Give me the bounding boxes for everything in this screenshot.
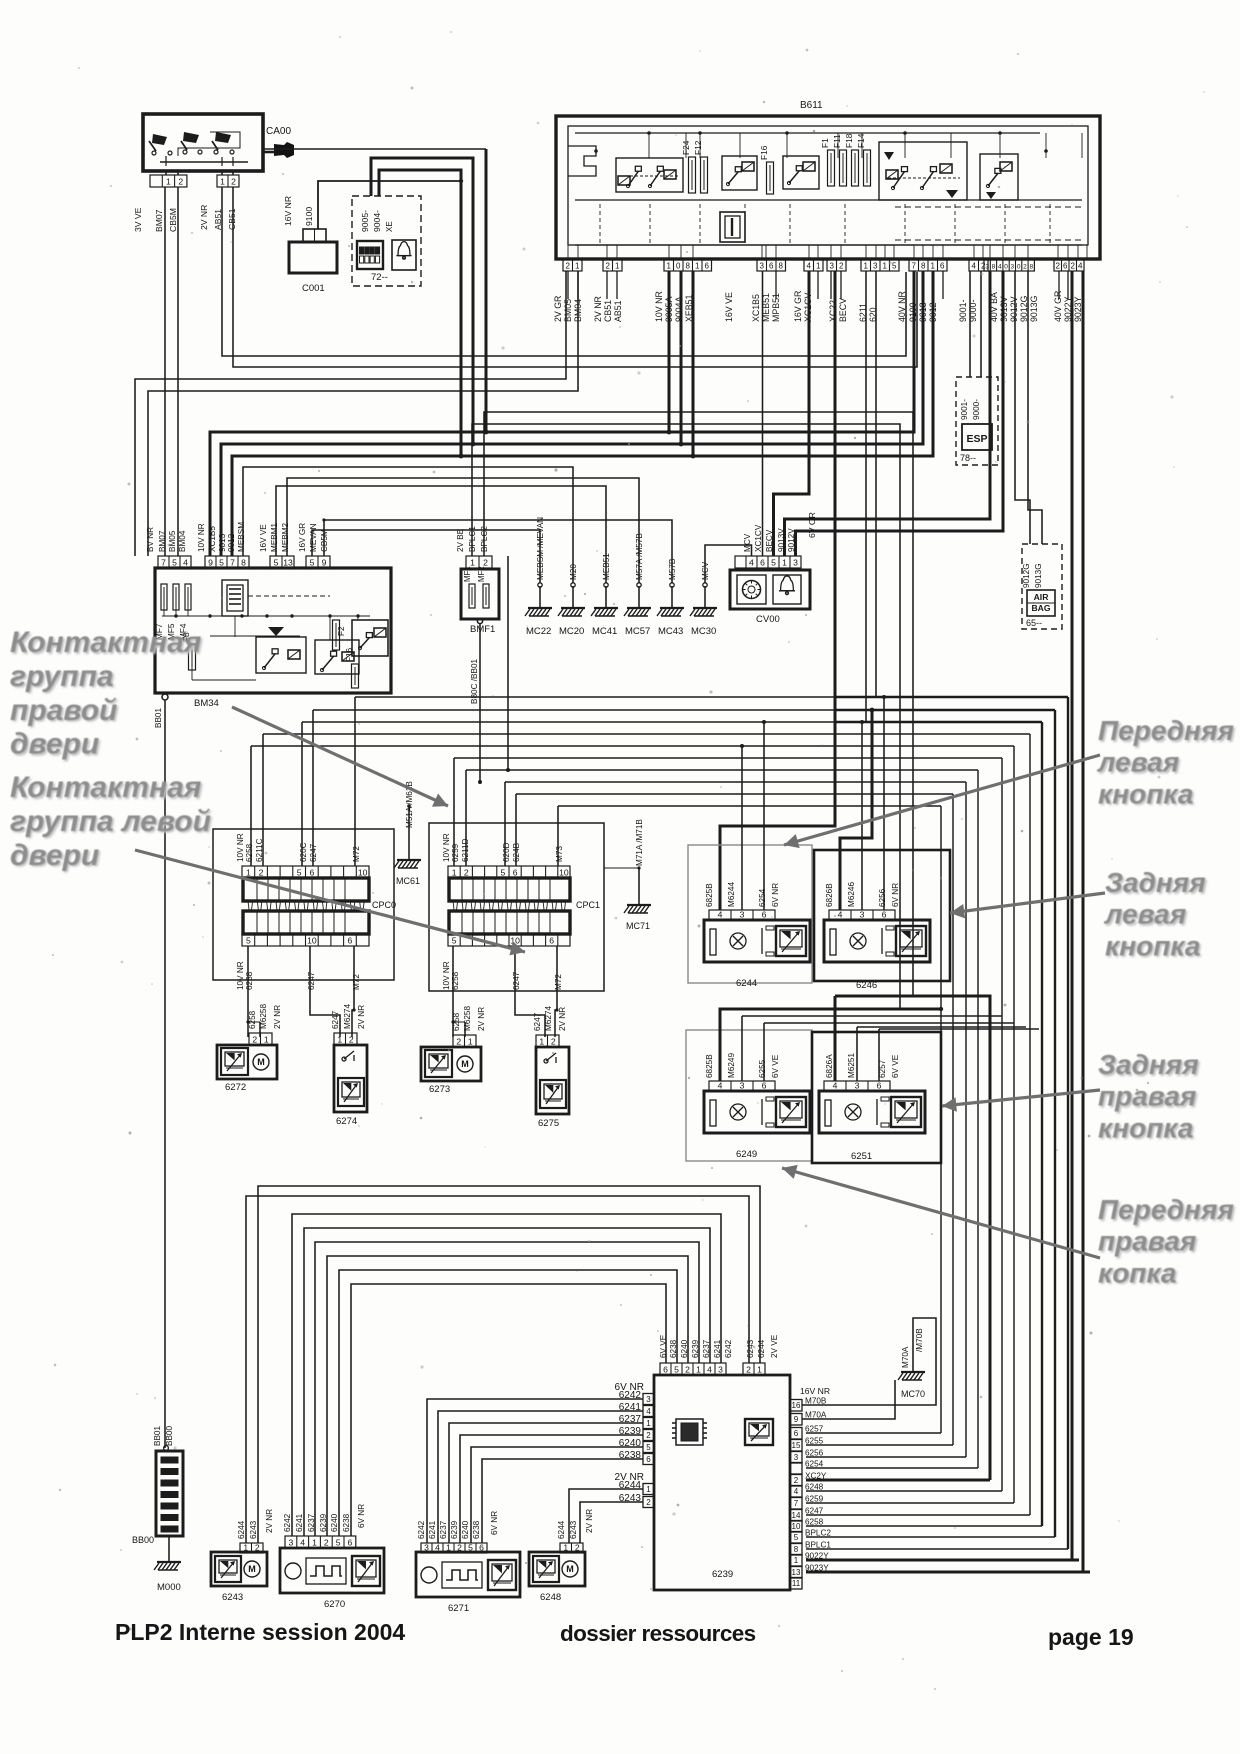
BM34 top pins g3 (270, 556, 294, 568)
wire BPLC1 up right down (472, 424, 900, 1009)
svg-text:9013G: 9013G (1034, 563, 1043, 588)
svg-text:1: 1 (883, 261, 888, 270)
6239 window icon (745, 1419, 773, 1445)
B611 fuse F14 (864, 150, 871, 186)
svg-text:1: 1 (452, 867, 457, 877)
B611 fuse F1 (828, 150, 835, 186)
svg-text:CB5M: CB5M (168, 208, 178, 232)
svg-text:M71A /M71B: M71A /M71B (635, 819, 644, 866)
6244 pins (709, 910, 775, 920)
svg-text:4: 4 (833, 1080, 838, 1090)
svg-text:6: 6 (309, 867, 314, 877)
unit airbag 65-- dashed (1022, 544, 1062, 629)
B611 relay 4 (879, 142, 967, 200)
svg-text:MF1: MF1 (463, 566, 472, 582)
svg-text:правая: правая (1098, 1226, 1196, 1257)
CPC1 contact bar top (449, 878, 570, 901)
svg-text:9001-: 9001- (960, 399, 969, 420)
svg-text:6240: 6240 (461, 1520, 470, 1539)
thick rail 9100 B611 to BM34 (210, 271, 914, 556)
svg-text:6V NR: 6V NR (771, 883, 780, 907)
svg-text:7: 7 (912, 261, 917, 270)
svg-text:65--: 65-- (1026, 618, 1042, 628)
svg-text:620C: 620C (299, 842, 308, 862)
svg-text:2: 2 (349, 1034, 354, 1044)
CPC0 top pins (242, 866, 369, 878)
svg-text:0: 0 (676, 261, 681, 270)
svg-text:6259: 6259 (805, 1495, 824, 1504)
svg-text:группа: группа (10, 660, 114, 693)
svg-text:4: 4 (998, 263, 1002, 270)
svg-text:3: 3 (760, 261, 765, 270)
B611 internal drops to pins (567, 245, 569, 259)
switch unit 6275 (536, 1047, 569, 1114)
arrow to CPC1 (232, 707, 448, 806)
svg-text:2V NR: 2V NR (558, 1007, 567, 1031)
wires 6249 pins up (720, 1009, 941, 1081)
svg-text:2: 2 (457, 1542, 462, 1552)
svg-text:5: 5 (468, 1542, 473, 1552)
svg-text:1: 1 (816, 261, 821, 270)
svg-text:6255: 6255 (805, 1437, 824, 1446)
svg-text:9023Y: 9023Y (805, 1564, 829, 1573)
svg-text:MC71: MC71 (626, 921, 650, 931)
svg-text:2: 2 (252, 1034, 257, 1044)
svg-text:6247: 6247 (533, 1012, 542, 1031)
wires 6244 pins up (741, 746, 743, 910)
fuse holder BMF1 (461, 569, 499, 619)
svg-text:16V GR: 16V GR (793, 291, 803, 322)
svg-text:1: 1 (337, 1034, 342, 1044)
svg-text:XE: XE (385, 221, 394, 232)
svg-text:F1: F1 (820, 138, 830, 148)
svg-text:5: 5 (246, 935, 251, 945)
svg-text:M70B: M70B (805, 1397, 827, 1406)
svg-text:9: 9 (794, 1415, 799, 1424)
6239 IC icon (676, 1419, 703, 1445)
svg-text:BAG: BAG (1031, 603, 1050, 613)
svg-text:2: 2 (259, 867, 264, 877)
6272 pins (249, 1033, 272, 1045)
svg-text:6238: 6238 (342, 1513, 351, 1532)
wires 6239 top pins staircase to 6270 (351, 1284, 666, 1536)
svg-text:6274: 6274 (336, 1116, 357, 1127)
svg-text:BM07: BM07 (154, 209, 164, 232)
svg-text:1: 1 (794, 1556, 799, 1565)
svg-text:9: 9 (322, 557, 327, 567)
svg-text:6254: 6254 (805, 1460, 824, 1469)
svg-text:левая: левая (1103, 899, 1186, 930)
window switch 6244 outer (688, 845, 812, 983)
svg-text:2: 2 (606, 261, 611, 270)
svg-text:78--: 78-- (960, 453, 976, 463)
svg-text:BMF1: BMF1 (470, 624, 495, 635)
ground MC41 (605, 586, 607, 608)
72 bell icon box (392, 240, 416, 270)
svg-text:M6251: M6251 (847, 1053, 856, 1078)
svg-text:Контактная: Контактная (10, 626, 202, 659)
B611 relay 2 (722, 156, 757, 190)
svg-text:5: 5 (674, 1364, 679, 1374)
svg-text:6: 6 (760, 557, 765, 567)
svg-text:6239: 6239 (712, 1569, 733, 1580)
svg-text:MC70: MC70 (901, 1389, 925, 1399)
svg-text:2V NR: 2V NR (593, 296, 603, 322)
svg-text:группа левой: группа левой (10, 805, 211, 838)
svg-text:2: 2 (483, 557, 488, 567)
svg-text:M: M (566, 1564, 574, 1574)
bus wire y734 (263, 733, 1030, 735)
svg-text:M: M (257, 1057, 265, 1067)
svg-text:Передняя: Передняя (1098, 1194, 1234, 1225)
svg-text:3: 3 (718, 1364, 723, 1374)
svg-text:BM05: BM05 (563, 299, 573, 322)
svg-text:620D: 620D (502, 842, 511, 862)
svg-text:/M70B: /M70B (915, 1328, 924, 1352)
svg-text:6243: 6243 (222, 1592, 243, 1603)
svg-text:5: 5 (172, 557, 177, 567)
thick wire 6211 down to cluster 6244 (720, 271, 835, 910)
svg-text:2V GR: 2V GR (553, 296, 563, 322)
svg-text:4: 4 (435, 1542, 440, 1552)
svg-text:10: 10 (358, 867, 368, 877)
svg-text:4: 4 (807, 261, 812, 270)
svg-text:6V OR: 6V OR (807, 512, 817, 538)
wire XC1B5 to CV00 pin6 (762, 271, 764, 556)
wire MC43 up to BM34 CB5M (324, 520, 672, 583)
svg-text:6258: 6258 (245, 843, 254, 862)
svg-text:6243: 6243 (249, 1520, 258, 1539)
svg-text:6273: 6273 (429, 1084, 450, 1095)
bus wire y806 (558, 805, 941, 807)
svg-text:2: 2 (456, 1036, 461, 1046)
svg-text:M6258: M6258 (463, 1006, 472, 1031)
svg-text:9013: 9013 (218, 533, 227, 552)
svg-text:dossier ressources: dossier ressources (560, 1621, 756, 1646)
svg-text:6825B: 6825B (705, 883, 714, 907)
svg-text:6: 6 (1063, 261, 1068, 270)
svg-text:2: 2 (685, 1364, 690, 1374)
svg-text:BB01: BB01 (153, 1426, 162, 1446)
svg-text:6241: 6241 (295, 1513, 304, 1532)
svg-text:6: 6 (513, 867, 518, 877)
svg-text:1: 1 (615, 261, 620, 270)
svg-text:6257: 6257 (805, 1425, 824, 1434)
CPC0 contact teeth (248, 901, 253, 911)
svg-text:M: M (248, 1564, 256, 1574)
svg-text:3: 3 (793, 557, 798, 567)
svg-text:M6274: M6274 (544, 1006, 553, 1031)
svg-text:0: 0 (1004, 263, 1008, 270)
svg-text:2: 2 (255, 1542, 260, 1552)
svg-text:M72: M72 (554, 974, 563, 990)
svg-text:1: 1 (646, 1419, 651, 1428)
svg-text:3: 3 (830, 261, 835, 270)
svg-text:40V GR: 40V GR (1053, 291, 1063, 322)
svg-text:M6249: M6249 (727, 1053, 736, 1078)
svg-text:6: 6 (769, 261, 774, 270)
svg-text:3: 3 (860, 909, 865, 919)
wire BPLC2 up right down (484, 412, 913, 996)
svg-text:7: 7 (794, 1499, 799, 1508)
bus wire y770 (466, 769, 978, 771)
wire MC57 up to BM34 MEBM2 (287, 478, 639, 583)
svg-text:MC30: MC30 (691, 626, 716, 637)
svg-text:Передняя: Передняя (1098, 715, 1234, 746)
wire MC30 up to CV00 MCV (705, 545, 752, 583)
BM34 internal wires (234, 616, 236, 637)
svg-text:6247: 6247 (309, 843, 318, 862)
svg-text:CA00: CA00 (266, 126, 291, 137)
svg-text:9100: 9100 (908, 302, 918, 322)
svg-text:9100: 9100 (304, 207, 314, 226)
svg-text:16V NR: 16V NR (800, 1386, 830, 1396)
svg-text:1: 1 (446, 1542, 451, 1552)
svg-text:6825B: 6825B (705, 1054, 714, 1078)
svg-text:9013V: 9013V (777, 528, 786, 552)
svg-text:F14: F14 (856, 133, 866, 148)
svg-text:3V VE: 3V VE (133, 207, 143, 232)
svg-text:6: 6 (348, 935, 353, 945)
svg-text:M6258: M6258 (259, 1004, 268, 1029)
svg-text:5: 5 (297, 867, 302, 877)
svg-text:9022Y: 9022Y (805, 1552, 829, 1561)
ground MC71 (638, 868, 640, 905)
B611 relay 3 (783, 156, 819, 189)
thick wire XC1CV to CV00 pin5 (774, 271, 810, 556)
svg-text:6239: 6239 (450, 1520, 459, 1539)
svg-text:AIR: AIR (1034, 592, 1050, 602)
svg-text:XC2Y: XC2Y (805, 1472, 827, 1481)
svg-text:6259: 6259 (451, 843, 460, 862)
bus wire y722 (302, 721, 835, 723)
svg-text:6258: 6258 (248, 1010, 257, 1029)
svg-text:M70A: M70A (901, 1346, 910, 1368)
svg-text:8: 8 (992, 263, 996, 270)
svg-text:двери: двери (10, 839, 99, 872)
svg-text:8: 8 (921, 261, 926, 270)
thick rail 9013 B611 to BM34 (221, 271, 923, 556)
svg-text:4: 4 (718, 1080, 723, 1090)
clock/buzzer unit CV00 (730, 570, 810, 609)
wire 9012G to airbag (1015, 271, 1030, 544)
B611 relay 5 (980, 154, 1018, 200)
window switch 6249 body (704, 1091, 810, 1133)
wire AB51 to B611 right (222, 187, 906, 356)
motor unit 6248 (529, 1552, 585, 1586)
svg-text:ESP: ESP (966, 433, 987, 445)
BMF1 bottom junction (477, 618, 482, 623)
svg-text:16V NR: 16V NR (283, 196, 293, 226)
switch unit 6272 (217, 1045, 277, 1079)
svg-text:MEBSM: MEBSM (237, 522, 246, 552)
svg-text:8: 8 (241, 557, 246, 567)
svg-text:4: 4 (794, 1487, 799, 1496)
svg-text:BM04: BM04 (178, 530, 187, 552)
svg-text:6258: 6258 (245, 971, 254, 990)
svg-text:6: 6 (877, 1080, 882, 1090)
svg-text:9012: 9012 (928, 302, 938, 322)
svg-text:MF2: MF2 (477, 566, 486, 582)
thick drop 9005A (668, 271, 671, 432)
svg-text:F12: F12 (693, 140, 703, 155)
BM34 connector grid (222, 580, 248, 616)
svg-text:F16: F16 (759, 145, 769, 160)
svg-text:2: 2 (566, 261, 571, 270)
svg-text:2: 2 (575, 1542, 580, 1552)
svg-text:10V NR: 10V NR (442, 961, 451, 990)
svg-text:XC1B5: XC1B5 (751, 294, 761, 322)
svg-text:двери: двери (10, 728, 99, 761)
svg-text:9012: 9012 (227, 533, 236, 552)
C001 pin connector (303, 229, 326, 242)
svg-text:BPLC1: BPLC1 (805, 1541, 831, 1550)
svg-text:6V NR: 6V NR (357, 1504, 366, 1528)
svg-text:1: 1 (695, 261, 700, 270)
svg-text:2: 2 (1056, 261, 1061, 270)
wire key to right (263, 148, 486, 150)
svg-text:6V VE: 6V VE (891, 1054, 900, 1078)
CA00 contact 1 (152, 151, 156, 155)
svg-text:9005-: 9005- (360, 210, 370, 232)
wire MC22 up to BM34 MEVAN (312, 530, 540, 583)
B611 relay 1 (616, 158, 683, 192)
svg-text:MC43: MC43 (658, 626, 683, 637)
svg-text:10V NR: 10V NR (236, 833, 245, 862)
svg-text:3: 3 (740, 909, 745, 919)
CPC1 contact bar bottom (449, 911, 570, 934)
thick wire 40V GR 9023Y long down (1082, 271, 1085, 1572)
connector pins CA00 right (217, 175, 239, 187)
svg-text:1: 1 (667, 261, 672, 270)
svg-text:9013G: 9013G (1029, 295, 1039, 322)
wire CB51 to B611 right (233, 187, 917, 367)
svg-text:10V NR: 10V NR (654, 291, 664, 322)
72 keypad icon (357, 241, 383, 269)
BM34 relay B (315, 640, 359, 674)
BM34 relay C (352, 620, 388, 656)
wire CA00 to pins (165, 171, 167, 175)
svg-text:XC1CV: XC1CV (754, 524, 763, 552)
svg-text:6271: 6271 (448, 1603, 469, 1614)
svg-text:16: 16 (792, 1401, 801, 1410)
svg-text:7: 7 (230, 557, 235, 567)
svg-text:8: 8 (686, 261, 691, 270)
ground MC61 (408, 806, 410, 860)
CA00 contact 2 (214, 150, 218, 154)
svg-text:6: 6 (762, 909, 767, 919)
svg-text:6247: 6247 (307, 971, 316, 990)
airbag AIR BAG box (1027, 590, 1055, 616)
svg-text:2V NR: 2V NR (585, 1509, 594, 1533)
svg-text:Контактная: Контактная (10, 771, 202, 804)
bus wire y710 (313, 709, 835, 711)
svg-text:7: 7 (161, 557, 166, 567)
svg-text:10: 10 (307, 935, 317, 945)
CPC1 bottom wires (452, 946, 454, 1037)
CPC0 contact bar top (243, 878, 369, 901)
CV00 pins (735, 556, 801, 568)
BM34 fuses MF7 MF5 MF4 (161, 584, 167, 610)
svg-text:6242: 6242 (283, 1513, 292, 1532)
wire B611 drop to bus b (875, 271, 877, 697)
svg-text:5: 5 (501, 867, 506, 877)
svg-text:правой: правой (10, 694, 117, 727)
svg-text:XEB51: XEB51 (684, 295, 694, 322)
svg-text:4: 4 (707, 1364, 712, 1374)
ground MC70 (802, 1318, 936, 1405)
svg-text:MC41: MC41 (592, 626, 617, 637)
svg-text:XC1B5: XC1B5 (208, 526, 217, 552)
svg-text:16V VE: 16V VE (724, 292, 734, 322)
svg-text:4: 4 (300, 1537, 305, 1547)
svg-text:3: 3 (646, 1395, 651, 1404)
window switch 6246 body (824, 920, 930, 962)
svg-text:4: 4 (646, 1407, 651, 1416)
svg-text:2: 2 (1071, 261, 1076, 270)
svg-text:1: 1 (243, 1542, 248, 1552)
thick wire 9012V to CV00 pin3 (796, 271, 1004, 556)
arrow to CPC0 (135, 850, 525, 952)
svg-text:1: 1 (864, 261, 869, 270)
arrow to 6251 (942, 1090, 1100, 1106)
svg-text:4: 4 (718, 909, 723, 919)
wire 9000- to ESP (980, 271, 982, 377)
thick wire key riser (485, 149, 488, 432)
svg-text:1: 1 (696, 1364, 701, 1374)
CA00 contact 3 (183, 150, 187, 154)
svg-text:6243: 6243 (746, 1339, 755, 1358)
fusebox B611 (556, 116, 1100, 259)
wire long down to 6246 pin6 (883, 697, 885, 910)
svg-text:40V NR: 40V NR (897, 291, 907, 322)
svg-text:6242: 6242 (417, 1520, 426, 1539)
svg-text:2: 2 (794, 1476, 799, 1485)
svg-text:левая: левая (1096, 747, 1179, 778)
svg-text:9: 9 (208, 557, 213, 567)
svg-text:1: 1 (782, 557, 787, 567)
svg-text:BB01: BB01 (154, 708, 163, 728)
svg-text:6: 6 (646, 1455, 651, 1464)
svg-text:10V NR: 10V NR (197, 523, 206, 552)
B611 inner frame (568, 126, 1088, 245)
right bundle corner wires to 6239 (806, 1432, 941, 1434)
ESP box (962, 424, 992, 450)
6246 pins (829, 910, 895, 920)
svg-text:1: 1 (931, 261, 936, 270)
arrow to 6244 (784, 755, 1100, 845)
key symbol (263, 151, 274, 154)
svg-text:3: 3 (855, 1080, 860, 1090)
module C001 (289, 242, 337, 273)
svg-text:M6274: M6274 (343, 1004, 352, 1029)
thick wire 40V GR 9022Y long down (1071, 271, 1074, 1560)
wire 9001- to ESP (969, 271, 971, 377)
svg-text:F18: F18 (844, 133, 854, 148)
thick wire 9013V to CV00 pin1 (785, 271, 991, 556)
svg-text:B611: B611 (800, 100, 823, 111)
svg-text:2V NR: 2V NR (265, 1509, 274, 1533)
arrow to cluster bottom (782, 1168, 1100, 1258)
svg-text:10: 10 (559, 867, 569, 877)
svg-text:6211C: 6211C (255, 838, 264, 862)
svg-text:M000: M000 (157, 1582, 181, 1593)
svg-text:2: 2 (551, 1036, 556, 1046)
svg-text:1: 1 (264, 1034, 269, 1044)
CPC0 bottom pins (242, 934, 369, 946)
ground MC57 (638, 586, 640, 608)
svg-text:2: 2 (324, 1537, 329, 1547)
